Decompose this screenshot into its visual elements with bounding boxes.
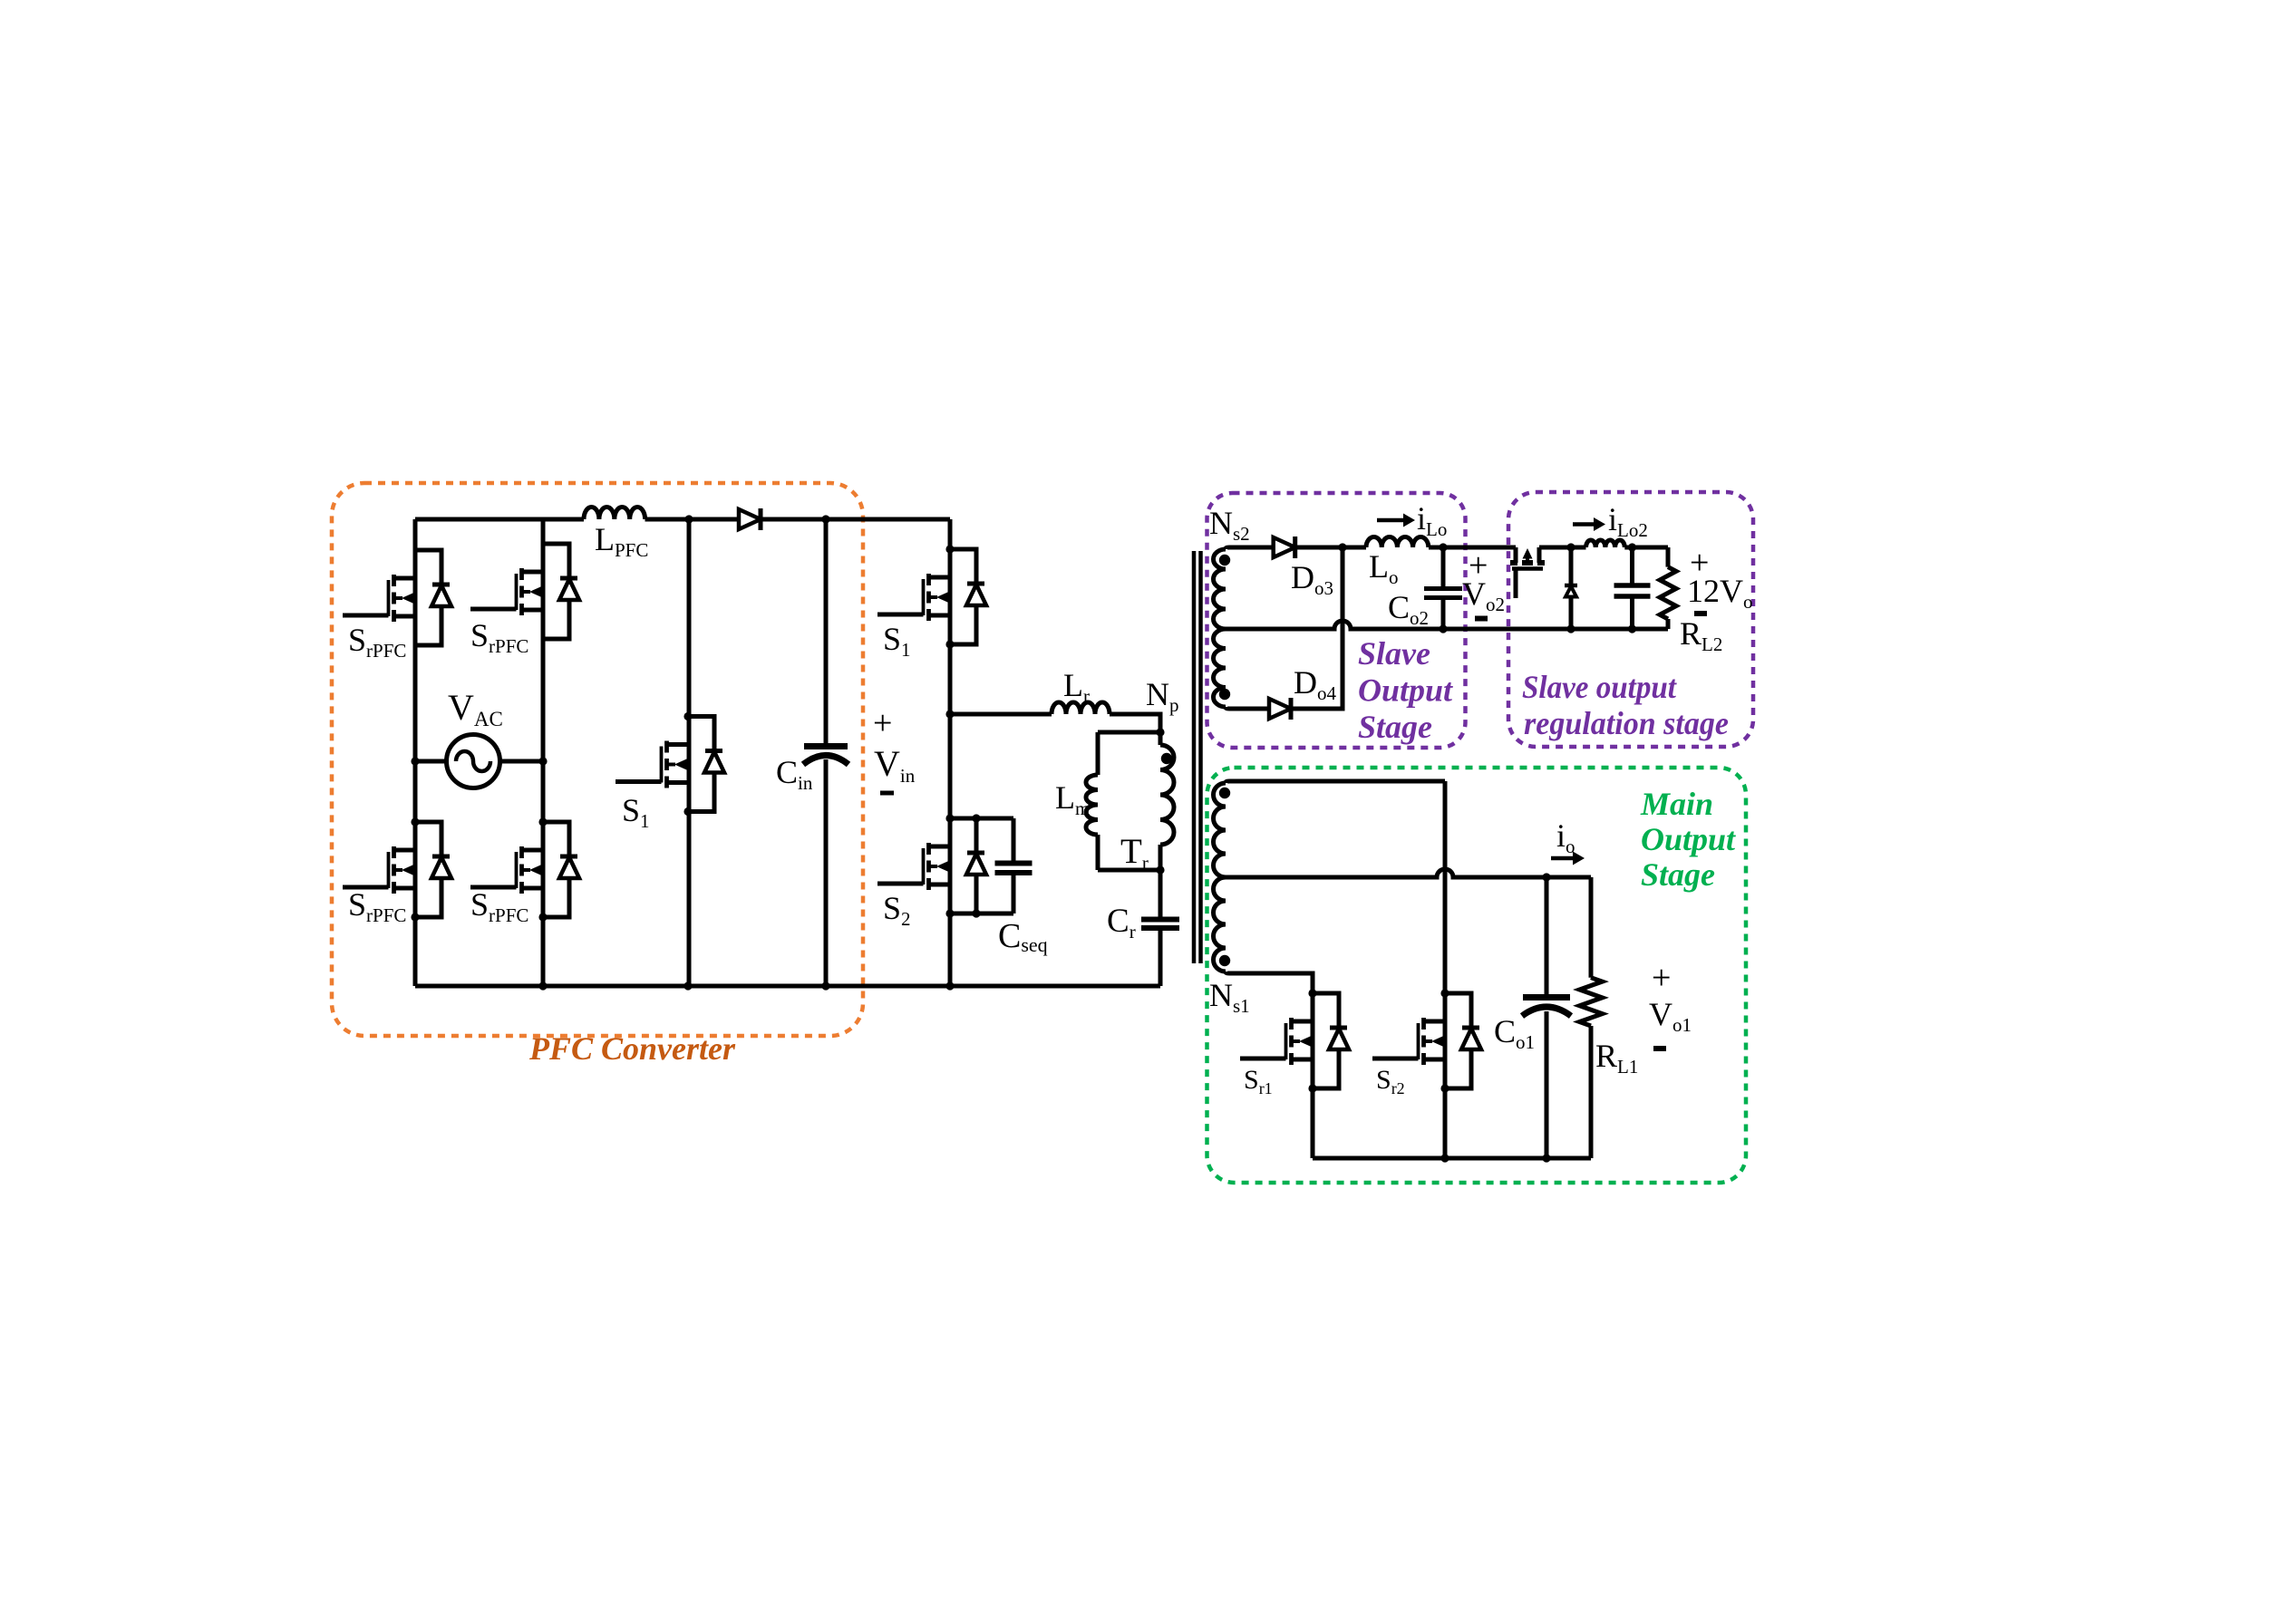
svg-text:regulation stage: regulation stage — [1524, 705, 1729, 741]
node C_o1 top — [1542, 873, 1550, 881]
capacitor C_o1 — [1522, 998, 1571, 1017]
node bottom C_o1 — [1542, 1154, 1550, 1162]
node buck cap top — [1628, 543, 1636, 551]
winding N_s1 — [1214, 783, 1226, 877]
node V_AC left — [411, 757, 419, 765]
node S2 drain diode — [972, 814, 980, 822]
svg-text:Output: Output — [1358, 672, 1453, 709]
resistor R_L2 — [1666, 547, 1671, 567]
wire C_r bottom — [1159, 928, 1163, 986]
inductor L_PFC — [584, 507, 645, 520]
node freewheel diode top — [1566, 543, 1575, 551]
svg-text:+: + — [873, 704, 892, 742]
transistor S_rPFC top-left — [343, 550, 451, 645]
svg-text:Stage: Stage — [1358, 709, 1432, 745]
node bottom S2 source trunk — [945, 981, 954, 990]
wire N_s2 bottom to D_o4 — [1226, 707, 1269, 709]
transistor buck switch (p-ch) — [1510, 547, 1545, 598]
wire buck L to R_L2 — [1624, 546, 1668, 550]
arrow i_o — [1551, 852, 1585, 865]
transistor S_rPFC bottom-right — [470, 817, 579, 921]
wire C_in leads — [824, 519, 829, 986]
node buck cap bottom — [1628, 624, 1636, 633]
svg-text:Output: Output — [1641, 821, 1736, 857]
node D junction — [1338, 543, 1346, 551]
diode freewheel — [1565, 547, 1577, 629]
wire N_s1 bottom rail — [1226, 971, 1313, 1158]
wire buck cap leads — [1630, 547, 1634, 629]
capacitor buck output — [1614, 585, 1651, 596]
wire S2 parallel-cap top — [976, 818, 1013, 913]
diode boost (PFC output) — [739, 508, 761, 530]
inductor L_r — [1052, 702, 1110, 714]
node half-bridge midpoint — [945, 710, 954, 718]
svg-text:12Vo: 12Vo — [1687, 573, 1753, 613]
wire L_r to N_p — [1110, 714, 1160, 732]
wire S_r2 riser — [1443, 781, 1448, 1158]
winding primary T_r — [1159, 732, 1163, 745]
wire main bottom bus — [1313, 1156, 1591, 1161]
svg-text:Main: Main — [1640, 786, 1713, 822]
transistor S_r2 — [1372, 989, 1481, 1092]
node bottom S_r2 — [1440, 1154, 1449, 1162]
wire boost trunk — [687, 519, 692, 986]
wire L_o to buck switch — [1429, 546, 1516, 550]
polarity dot N_s2 top — [1219, 555, 1230, 565]
wire bridge leg 1 — [413, 519, 418, 986]
capacitor C_seq — [995, 864, 1033, 874]
wire L_m bottom — [1098, 868, 1160, 873]
svg-text:Slave output: Slave output — [1522, 669, 1677, 705]
label - (V_o2) — [1475, 616, 1488, 622]
wire N_s1 center tap with hop — [1226, 869, 1591, 877]
inductor L_o2 (buck) — [1586, 540, 1625, 547]
wire slave bottom rail — [1443, 627, 1668, 632]
wire buck switch to diode node — [1539, 546, 1586, 550]
wire S1-S2 trunk — [948, 519, 953, 986]
polarity dot N_s1 bottom — [1219, 955, 1230, 966]
dashed box: Slave output regulation stage — [1508, 492, 1753, 747]
node PFC diode cathode / C_in top — [821, 515, 829, 523]
wire N_s1 top rail — [1226, 781, 1445, 783]
node bottom C_in — [821, 981, 829, 990]
node S2 source diode — [972, 909, 980, 917]
node primary top — [1156, 728, 1164, 736]
node C_o2 bottom — [1439, 624, 1447, 633]
wire bridge leg 2 — [541, 519, 546, 986]
label - (V_in) — [880, 791, 894, 796]
resistor R_L1 — [1589, 877, 1594, 978]
inductor L_o — [1366, 536, 1429, 547]
node primary bottom — [1156, 865, 1164, 874]
node L_o out / C_o2 top — [1439, 543, 1447, 551]
wire D_o3 to L_o — [1295, 546, 1366, 550]
capacitor C_o2 — [1424, 589, 1462, 598]
wire L_m top — [1098, 730, 1160, 735]
wire N_s2 center tap with hop — [1226, 621, 1443, 629]
dashed box: Slave Output Stage — [1207, 493, 1466, 748]
svg-text:PFC Converter: PFC Converter — [528, 1030, 736, 1067]
svg-text:Stage: Stage — [1641, 856, 1715, 893]
label - (12V_o) — [1694, 611, 1707, 616]
source V_AC — [447, 735, 500, 788]
wire C_o2 leads — [1441, 547, 1446, 629]
wire V_AC horizontal — [415, 759, 543, 764]
transistor S_rPFC top-right — [470, 544, 579, 639]
transistor S_1 half-bridge — [877, 545, 986, 648]
node V_AC right — [538, 757, 547, 765]
node bottom leg2 — [538, 981, 547, 990]
capacitor C_in — [803, 747, 848, 765]
transistor S_rPFC bottom-left — [343, 817, 451, 921]
wire C_seq leads — [1012, 818, 1016, 913]
transistor S_r1 — [1240, 989, 1349, 1092]
node bottom boost — [683, 981, 692, 990]
svg-text:Slave: Slave — [1358, 635, 1430, 672]
wire midpoint to L_r — [950, 712, 1052, 717]
winding N_s2 — [1214, 549, 1226, 629]
polarity dot N_s2 bottom — [1219, 689, 1230, 700]
wire bottom bus (PFC to C_r) — [415, 984, 1160, 989]
polarity dot primary — [1161, 753, 1172, 764]
wire top bus to S1 — [863, 517, 950, 522]
wire primary bottom to C_r — [1159, 870, 1163, 920]
diode D_o3 — [1274, 536, 1295, 558]
wire D_o4 to junction riser — [1291, 547, 1343, 709]
arrow i_Lo — [1377, 514, 1415, 527]
transformer core — [1194, 551, 1201, 963]
label - (V_o1) — [1653, 1046, 1666, 1051]
svg-text:+: + — [1652, 959, 1671, 997]
transistor S_1 boost — [616, 712, 724, 816]
inductor L_m — [1096, 732, 1100, 775]
wire N_s2 top to D_o3 — [1226, 547, 1274, 549]
polarity dot N_s1 top — [1219, 788, 1230, 798]
capacitor C_r — [1141, 920, 1179, 929]
wire top bus (PFC) — [415, 517, 950, 522]
dashed box: PFC Converter region — [332, 483, 863, 1036]
diode D_o4 — [1269, 698, 1291, 720]
node PFC boost-switch top — [684, 515, 693, 523]
wire C_o1 leads — [1545, 877, 1549, 1158]
dashed box: Main Output Stage — [1207, 768, 1747, 1183]
node freewheel diode bottom — [1566, 624, 1575, 633]
arrow i_Lo2 — [1573, 517, 1605, 531]
transistor S_2 half-bridge — [877, 814, 986, 917]
